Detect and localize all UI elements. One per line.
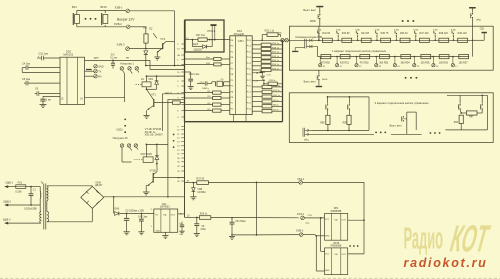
dots between buzzers xyxy=(85,18,87,20)
svg-text:BF15: BF15 xyxy=(101,5,108,9)
dots top xyxy=(402,20,404,22)
wire keypad entry xyxy=(289,39,319,41)
svg-text:C4 0.1мк: C4 0.1мк xyxy=(138,216,148,218)
button SB12 xyxy=(356,56,358,58)
svg-text:R49 120: R49 120 xyxy=(458,32,468,35)
svg-text:GND: GND xyxy=(325,236,330,238)
ground C10a xyxy=(229,235,235,237)
wire DD2 pin xyxy=(22,71,60,73)
wire beeper bottom xyxy=(77,26,127,28)
wire relay K16 top xyxy=(146,143,168,145)
wire DD2 to bus xyxy=(85,59,151,61)
svg-text:СТВ: СТВ xyxy=(308,215,313,217)
raw 12V rail xyxy=(104,196,185,198)
svg-text:R18 1к: R18 1к xyxy=(272,47,279,49)
resistor bus-CPU row b xyxy=(213,96,221,99)
load15 wires xyxy=(121,147,123,162)
svg-text:C5 1мк: C5 1мк xyxy=(22,78,31,81)
svg-text:R9 1к: R9 1к xyxy=(273,100,279,102)
svg-text:VD-В: VD-В xyxy=(113,207,119,210)
button SB13 xyxy=(375,56,377,58)
svg-text:VD1-1Б: 1N4007: VD1-1Б: 1N4007 xyxy=(145,133,164,136)
svg-text:PD: PD xyxy=(230,108,233,110)
svg-text:VT1Б: VT1Б xyxy=(150,170,157,173)
resistor R17 xyxy=(252,52,261,54)
button SB8 xyxy=(453,39,455,41)
box2 bottom wire b xyxy=(311,133,374,135)
transformer primary lower winding xyxy=(40,212,41,224)
svg-text:Х3/4-2: Х3/4-2 xyxy=(297,213,305,216)
svg-text:200 R55: 200 R55 xyxy=(421,61,431,64)
ground top left button xyxy=(316,6,323,8)
svg-text:Нагрузка 15: Нагрузка 15 xyxy=(113,136,128,140)
button SB17 xyxy=(452,56,454,58)
resistor R11 xyxy=(252,91,262,93)
wire DD2 low xyxy=(85,96,125,98)
svg-text:ДБ107: ДБ107 xyxy=(95,184,103,187)
svg-text:SB1Б: SB1Б xyxy=(322,79,328,81)
resistor R14 xyxy=(252,65,261,67)
gnd rail to X3/4 xyxy=(232,234,257,236)
ground bar test point xyxy=(86,69,92,70)
module box variant 1 xyxy=(289,26,493,70)
svg-text:PC: PC xyxy=(230,63,233,65)
svg-text:C4 1мк: C4 1мк xyxy=(22,63,31,66)
watermark KOT xyxy=(447,218,493,261)
svg-text:LМ7805С: LМ7805С xyxy=(160,207,170,209)
jack connector X3 walls xyxy=(302,128,304,137)
wire VCC branch IR1-IR2 xyxy=(320,217,322,219)
wire channel feed b xyxy=(168,98,185,100)
svg-text:общ: общ xyxy=(304,140,309,142)
connector load15 pin b xyxy=(127,144,130,147)
resistor bus-CPU row d xyxy=(213,109,221,112)
svg-text:R58: R58 xyxy=(320,122,325,124)
wire K1 to bus xyxy=(147,75,185,77)
ground DA1 xyxy=(164,232,166,235)
svg-text:Х3/В-1: Х3/В-1 xyxy=(115,6,123,10)
jack connector X2B walls xyxy=(304,39,306,49)
svg-text:общ: общ xyxy=(305,222,309,224)
svg-text:0.25A: 0.25A xyxy=(15,190,22,193)
connector load1 pin c xyxy=(135,67,138,70)
resistor R48 xyxy=(439,38,449,42)
svg-text:нм: нм xyxy=(126,58,129,60)
wire X3/B-3 xyxy=(129,48,145,50)
button SB1 xyxy=(318,39,320,41)
svg-text:R43 82: R43 82 xyxy=(342,32,350,35)
connector load1 pin b xyxy=(128,67,131,70)
svg-text:16МГц: 16МГц xyxy=(202,88,209,90)
dots near bus xyxy=(173,134,175,136)
svg-text:470 R50: 470 R50 xyxy=(321,61,331,64)
svg-text:C10 1мк: C10 1мк xyxy=(38,52,48,55)
dashed link relay contact xyxy=(136,83,142,85)
resistor R51 xyxy=(340,55,350,59)
svg-text:PD: PD xyxy=(230,69,233,71)
svg-text:Нагрузка 1: Нагрузка 1 xyxy=(120,61,134,65)
resistor R19 xyxy=(252,44,261,46)
svg-text:Радио: Радио xyxy=(404,221,444,256)
svg-text:180 R57: 180 R57 xyxy=(459,61,469,64)
svg-text:OUT: OUT xyxy=(342,220,347,222)
svg-text:VD1: VD1 xyxy=(148,78,153,81)
svg-text:КС156А: КС156А xyxy=(197,191,206,194)
button SB6 xyxy=(415,39,417,41)
resistor R8 xyxy=(252,105,262,107)
svg-text:180 R56: 180 R56 xyxy=(439,61,449,64)
wire beeper top xyxy=(77,9,126,11)
resistor R7 xyxy=(252,110,262,112)
base wire VT16 to bus xyxy=(153,177,184,179)
capacitor C1 mains xyxy=(30,186,32,188)
test point TX xyxy=(85,70,94,72)
ground C4a xyxy=(138,231,144,233)
resistor R54 xyxy=(401,55,411,59)
diode VD16 xyxy=(156,144,158,155)
svg-text:PC: PC xyxy=(230,103,233,105)
load1 wire down xyxy=(124,74,126,102)
resistor R12 xyxy=(252,86,262,88)
ground C8 xyxy=(194,233,200,235)
resistor bus-CPU row a xyxy=(213,91,221,94)
svg-text:470м: 470м xyxy=(200,229,206,231)
svg-text:общ: общ xyxy=(476,19,481,21)
box2 bottom wire a xyxy=(311,129,369,131)
svg-text:2 вариант подключения кнопок у: 2 вариант подключения кнопок управления xyxy=(375,101,430,105)
svg-text:R19 1к: R19 1к xyxy=(272,43,279,45)
svg-text:R10 1к: R10 1к xyxy=(273,95,280,97)
wire button into box1 xyxy=(318,26,320,40)
resistor R49 xyxy=(458,38,468,42)
svg-text:Х3/В-2: Х3/В-2 xyxy=(114,22,122,26)
contact arms load1 xyxy=(122,70,124,73)
test point GND xyxy=(94,65,97,68)
module box variant 2 xyxy=(289,93,493,143)
connector cross left xyxy=(281,39,284,42)
resistor R13 xyxy=(252,69,261,71)
svg-text:PD: PD xyxy=(230,80,233,82)
svg-text:PD: PD xyxy=(230,86,233,88)
buzzer BF1 xyxy=(72,13,74,25)
button Vykl vent below box1 xyxy=(318,70,320,75)
zener VD9 xyxy=(193,182,195,184)
svg-text:CPU: CPU xyxy=(238,39,244,43)
svg-text:R37 5К: R37 5К xyxy=(196,177,204,180)
module box thick bottom edge xyxy=(185,121,283,123)
resistor R44 xyxy=(361,38,371,42)
wire GND branch IR1-IR2 xyxy=(315,235,317,237)
svg-text:СБ1: СБ1 xyxy=(480,29,485,31)
ground VT1 emitter xyxy=(143,114,149,116)
svg-text:0.1 мк: 0.1 мк xyxy=(110,56,118,59)
ground below box1 button xyxy=(316,86,322,87)
button SB-off left xyxy=(319,14,320,15)
svg-text:R48 120: R48 120 xyxy=(439,32,449,35)
ground keypad left xyxy=(295,47,304,49)
svg-text:R67: R67 xyxy=(469,117,474,119)
svg-text:GND: GND xyxy=(325,270,330,272)
ground C15 xyxy=(188,86,194,88)
resistor R30 xyxy=(214,58,221,61)
module box IR receiver xyxy=(185,20,224,52)
wire X3/B-1 to VT4 collector xyxy=(130,10,175,12)
resistor R16 xyxy=(252,56,261,58)
svg-text:КД-В: КД-В xyxy=(193,44,199,46)
svg-text:Beeper 12V: Beeper 12V xyxy=(117,18,135,22)
transformer secondary xyxy=(47,186,48,201)
ground C3 xyxy=(123,231,129,233)
svg-text:470 R52: 470 R52 xyxy=(360,61,370,64)
svg-text:IРМ2506В: IРМ2506В xyxy=(331,245,342,247)
svg-text:R27 10к: R27 10к xyxy=(196,34,206,37)
svg-text:radiokot.ru: radiokot.ru xyxy=(404,256,488,270)
svg-text:VT4: VT4 xyxy=(160,37,165,41)
ground under C7 xyxy=(40,103,47,105)
wire CPU to keypad xyxy=(252,39,282,41)
svg-text:R16 1к: R16 1к xyxy=(272,56,279,58)
resistor R18 xyxy=(252,48,261,50)
gnd rail to X3/B-3 xyxy=(256,234,258,236)
svg-text:R42 82: R42 82 xyxy=(322,32,330,35)
wire VD4 to bus xyxy=(146,65,185,67)
dots box2 middle xyxy=(430,132,432,134)
buzzer BF15 xyxy=(101,13,103,25)
svg-text:SB1Б: SB1Б xyxy=(310,21,316,23)
svg-text:VCC: VCC xyxy=(325,219,330,221)
dots between IR chips xyxy=(349,245,351,247)
button SB2 xyxy=(337,39,339,41)
button SB16 xyxy=(433,56,435,58)
jack connector 1a xyxy=(308,39,311,42)
wire jack2 to row2 xyxy=(317,47,319,57)
svg-text:PD: PD xyxy=(230,46,233,48)
svg-text:ХД/В-2: ХД/В-2 xyxy=(3,200,11,203)
svg-text:К2(5): К2(5) xyxy=(117,128,123,131)
resistor R53 xyxy=(380,55,390,59)
svg-text:МС: МС xyxy=(279,32,283,34)
vertical +12 drop xyxy=(256,182,258,235)
svg-text:VT1: VT1 xyxy=(151,93,156,96)
svg-text:RX: RX xyxy=(98,75,102,78)
svg-text:R11 1к: R11 1к xyxy=(273,90,280,92)
keypad row1 wire xyxy=(319,39,473,41)
svg-text:Клеммная колодка Х2/В: Клеммная колодка Х2/В xyxy=(295,36,322,39)
transformer core xyxy=(43,184,45,230)
svg-text:R46 91: R46 91 xyxy=(400,32,408,35)
wire +12V to X3/4-1 xyxy=(256,182,258,184)
module box thick right edge xyxy=(282,40,284,121)
button SB4 xyxy=(376,39,378,41)
svg-text:R22 1.1к: R22 1.1к xyxy=(265,29,275,32)
svg-text:Выкл. вент: Выкл. вент xyxy=(303,9,317,12)
wire IR15 out xyxy=(348,253,364,255)
bottom scan edge xyxy=(0,277,500,279)
svg-text:Х3/В-3: Х3/В-3 xyxy=(296,230,304,233)
resistor R10 xyxy=(252,96,262,98)
resistor R9 xyxy=(252,101,262,103)
svg-text:ИП-В-1: ИП-В-1 xyxy=(207,31,215,33)
dots below box1 xyxy=(405,77,407,79)
wire channel feed a xyxy=(162,93,184,95)
svg-text:VDВ: VDВ xyxy=(197,189,202,191)
resistor R31 xyxy=(214,63,221,66)
svg-text:R17 1к: R17 1к xyxy=(272,52,279,54)
node R6/VT4 base xyxy=(145,48,147,50)
svg-text:R44 68: R44 68 xyxy=(361,32,369,35)
button SB10 xyxy=(319,57,321,64)
svg-text:CВ 470мк: CВ 470мк xyxy=(235,221,246,223)
svg-text:ХД/В-3: ХД/В-3 xyxy=(3,218,11,221)
svg-text:R15 1к: R15 1к xyxy=(272,60,279,62)
svg-text:GND: GND xyxy=(98,65,104,68)
keypad row2 wire xyxy=(318,56,470,58)
connector load1 pin a xyxy=(120,67,123,70)
connector cross right xyxy=(285,39,288,42)
resistor R42 xyxy=(323,38,333,42)
ground top right button xyxy=(469,7,476,9)
svg-text:360 R53: 360 R53 xyxy=(379,61,389,64)
svg-text:PD: PD xyxy=(230,51,233,53)
svg-text:MAX232: MAX232 xyxy=(64,53,74,56)
svg-text:0.022х630В: 0.022х630В xyxy=(24,207,37,210)
svg-text:VCC: VCC xyxy=(325,253,330,255)
svg-text:R14 1к: R14 1к xyxy=(272,64,279,66)
IR receiver U-IR xyxy=(211,24,217,26)
svg-text:Х3/В-3: Х3/В-3 xyxy=(117,43,125,47)
svg-text:360 R54: 360 R54 xyxy=(401,61,411,64)
connector load15 pin a xyxy=(120,144,123,147)
box2 right bottom wire xyxy=(445,129,487,131)
button SB-obsh right xyxy=(472,13,473,14)
resistor R52 xyxy=(360,55,370,59)
resistor R50 xyxy=(321,55,331,59)
resistor R15 xyxy=(252,61,261,63)
svg-text:ХД/В-1: ХД/В-1 xyxy=(5,181,13,184)
button SB11 xyxy=(336,56,338,58)
resistor bus-CPU row c xyxy=(213,103,221,106)
svg-text:R8 1к: R8 1к xyxy=(273,105,279,107)
wire +12V to K16 xyxy=(167,99,169,197)
wire X3/B-2 to R6 xyxy=(130,26,146,28)
svg-text:Выкл. вент: Выкл. вент xyxy=(304,80,317,83)
button SBa box2 xyxy=(327,97,329,104)
transformer secondary lower xyxy=(47,212,49,222)
vertical row1-row2 link xyxy=(472,40,474,56)
jack connector 2b xyxy=(306,133,309,136)
resistor R46 xyxy=(400,38,410,42)
svg-text:BF1: BF1 xyxy=(72,5,77,9)
ground zener xyxy=(190,196,196,198)
svg-text:FU1: FU1 xyxy=(18,181,23,184)
svg-text:R47 100: R47 100 xyxy=(419,32,429,35)
test point RX xyxy=(85,75,94,77)
jack connector 2a xyxy=(306,129,309,132)
svg-text:R66: R66 xyxy=(454,122,459,124)
wire IR1 out xyxy=(348,219,364,221)
svg-text:DA: DA xyxy=(163,213,167,216)
capacitor C7 xyxy=(43,95,60,97)
svg-text:R-6: R-6 xyxy=(143,27,148,30)
svg-text:C3 1500мк х 25В: C3 1500мк х 25В xyxy=(125,209,144,212)
svg-text:R13 1к: R13 1к xyxy=(272,68,279,70)
svg-text:Выкл. вент: Выкл. вент xyxy=(390,125,403,128)
wire right drop xyxy=(363,182,365,254)
button SB15 xyxy=(413,56,415,58)
svg-text:1 вариант подключения кнопок у: 1 вариант подключения кнопок управления xyxy=(332,49,387,53)
button SBc box2 xyxy=(459,95,461,103)
dots continuation loads xyxy=(124,119,126,121)
button SB9 xyxy=(472,39,474,41)
box2 top wire xyxy=(328,96,370,98)
resistor R47 xyxy=(420,38,430,42)
jack connector 1b xyxy=(308,45,311,48)
CPU bottom stubs xyxy=(232,115,234,122)
dots box2 left xyxy=(375,132,377,134)
ground bar in box1 xyxy=(482,32,487,34)
resistor R56 xyxy=(439,55,449,59)
resistor R67 xyxy=(466,111,477,115)
svg-text:OUT: OUT xyxy=(171,214,176,216)
resistor R43 xyxy=(342,38,352,42)
svg-text:ХР/Т: ХР/Т xyxy=(94,58,100,60)
svg-text:R45 75: R45 75 xyxy=(381,32,389,35)
svg-text:R33 5к: R33 5к xyxy=(269,80,276,82)
ground for VT4 emitter xyxy=(154,56,160,58)
svg-text:OUT: OUT xyxy=(342,254,347,256)
svg-text:GND: GND xyxy=(156,231,161,233)
button SB3 xyxy=(357,39,359,41)
svg-text:IРМ2506В: IРМ2506В xyxy=(331,211,342,213)
bus vertical line xyxy=(184,20,186,122)
svg-text:TX: TX xyxy=(98,70,101,73)
ground VT16 emitter xyxy=(143,191,150,193)
svg-text:КД522Б: КД522Б xyxy=(194,49,203,51)
bus pin stubs and numbers xyxy=(181,43,184,45)
button SB7 xyxy=(434,39,436,41)
resistor R57 xyxy=(459,55,469,59)
resistor R55 xyxy=(421,55,431,59)
wire DA1 out to bus xyxy=(178,213,185,215)
button SBd box2 xyxy=(481,95,483,103)
box2 right section top wire xyxy=(447,94,487,96)
button SB5 xyxy=(396,39,398,41)
wires crystal to CPU xyxy=(224,81,230,83)
svg-text:420 R51: 420 R51 xyxy=(340,61,350,64)
resistor R45 xyxy=(381,38,391,42)
wire row1 end to ground xyxy=(473,39,485,41)
svg-text:R7 1к: R7 1к xyxy=(273,110,279,112)
svg-text:R26 1к: R26 1к xyxy=(200,212,208,215)
button SB14 xyxy=(394,56,396,58)
button SBb box2 xyxy=(348,97,350,104)
connector load15 pin c xyxy=(134,144,137,147)
diode VD4 xyxy=(144,51,148,55)
